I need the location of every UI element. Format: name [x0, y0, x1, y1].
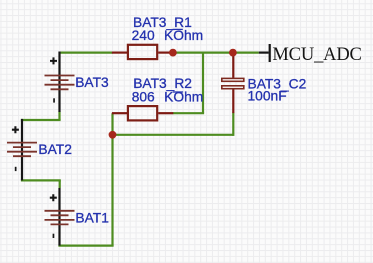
resistor BAT3_R1: [112, 45, 173, 59]
designator BAT1: [75, 210, 108, 225]
junction node R1.2: [169, 49, 177, 57]
svg-text:806 KOhm: 806 KOhm: [132, 89, 204, 104]
junction node R2.1 / C2.2 / BAT1.minus: [109, 131, 117, 139]
svg-text:240 KOhm: 240 KOhm: [132, 28, 204, 43]
value 100nF: [248, 88, 287, 103]
svg-text:BAT3: BAT3: [75, 75, 109, 90]
designator BAT3_R1: [133, 15, 192, 30]
wire R1.2 to MCU_ADC port: [173, 51, 259, 53]
battery BAT1: [45, 188, 75, 246]
wire middle horizontal C2.2 to node: [113, 134, 234, 136]
wire BAT3.plus to R1.1: [60, 51, 113, 53]
junction node C2.1: [229, 49, 237, 57]
wire left vertical R2.1 to BAT1.minus: [111, 113, 113, 245]
wire C2.2 vertical: [232, 113, 234, 136]
net label MCU_ADC: [259, 44, 362, 65]
designator BAT3_C2: [248, 77, 307, 92]
battery BAT2: [7, 119, 37, 180]
svg-text:MCU_ADC: MCU_ADC: [272, 45, 362, 65]
wire BAT3.minus to BAT2.plus: [21, 112, 61, 121]
battery BAT3: [45, 52, 75, 113]
value 240 KOhm: [132, 28, 204, 43]
wire R2.2 horizontal: [173, 112, 204, 114]
wire vertical branch to R2.2: [202, 53, 204, 114]
wire BAT2.minus to BAT1.plus: [21, 180, 61, 188]
resistor BAT3_R2: [112, 106, 173, 120]
svg-text:BAT2: BAT2: [38, 142, 71, 157]
designator BAT3: [75, 75, 109, 90]
designator BAT2: [38, 142, 71, 157]
value 806 KOhm: [132, 89, 204, 104]
wire bottom horizontal BAT1.minus: [58, 245, 113, 247]
designator BAT3_R2: [133, 76, 192, 91]
svg-text:BAT1: BAT1: [75, 210, 108, 225]
capacitor BAT3_C2: [222, 53, 244, 114]
